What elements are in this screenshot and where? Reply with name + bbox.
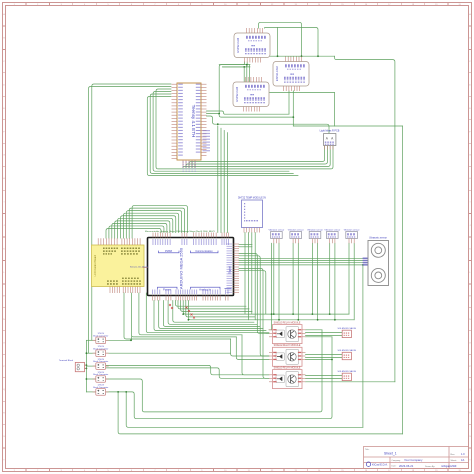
- wire vibration sensor 3 drop R: [317, 243, 319, 320]
- wire LCD bottom fan 4: [146, 293, 269, 333]
- wire LCD-mega bus 7: [123, 213, 178, 238]
- wire buck4 out: [106, 330, 322, 412]
- ultrasonic sensor module U7: [363, 237, 389, 286]
- wire LCD-mega bus 1: [106, 229, 161, 239]
- junction: [130, 339, 132, 341]
- svg-text:Date:: Date:: [392, 465, 397, 468]
- wire camera B bottom bus: [262, 92, 335, 94]
- wire teensy 5V left loop: [92, 84, 171, 340]
- wire LCD-mega bus 9: [129, 208, 184, 238]
- junction: [334, 319, 336, 321]
- wire LCD bottom fan 3: [139, 293, 242, 335]
- wire camera B pin drop a: [288, 91, 290, 114]
- wire camera-mega drop 2: [220, 128, 222, 232]
- junction: [125, 391, 127, 393]
- svg-text:PWM: PWM: [165, 249, 173, 253]
- wire LCD-mega bus 8: [126, 211, 181, 239]
- vibration sensor module S2: [288, 229, 304, 244]
- wire vibration sensor 1 drop L: [273, 243, 275, 314]
- solenoid valve V1: [337, 327, 356, 338]
- wire DHT drop 2: [247, 233, 249, 320]
- svg-text:Sheet:: Sheet:: [451, 459, 458, 462]
- svg-text:Serial_LCD_Board: Serial_LCD_Board: [130, 266, 149, 269]
- wire mega bottom fan 3: [181, 301, 252, 312]
- svg-text:SINGLE RELAY MODULE: SINGLE RELAY MODULE: [274, 366, 301, 369]
- wire buck 5 left pin: [86, 391, 95, 393]
- wire mega bottom fan 4: [183, 301, 349, 315]
- ESP32-CAM camera module U4: [233, 77, 269, 112]
- junction: [317, 55, 319, 57]
- wire camera B pin drop b: [292, 91, 294, 126]
- junction: [182, 313, 184, 315]
- single relay module K1: [269, 321, 306, 343]
- wire mega-ultrasonic Vcc: [239, 257, 368, 259]
- wire terminal pin a: [85, 364, 87, 366]
- wire buck 3 left pin: [86, 365, 95, 367]
- junction: [277, 55, 279, 57]
- wire mega right drop 1: [239, 254, 269, 334]
- wire relay2-solenoid b: [306, 357, 343, 359]
- wire ESP32 U2 GND loop: [265, 28, 319, 57]
- junction: [86, 368, 88, 370]
- wire DHT drop 3: [251, 233, 253, 315]
- wire camera A-C link 1: [219, 62, 244, 114]
- wire teensy loop q3: [150, 94, 293, 173]
- wire LCD bottom fan 8: [168, 301, 257, 325]
- wire relay2-solenoid a: [306, 354, 343, 356]
- wire teensy-cameraC link 1: [207, 111, 290, 114]
- svg-text:2023-06-21: 2023-06-21: [399, 464, 414, 468]
- wire DHT drop 4: [254, 233, 256, 320]
- junction: [271, 313, 273, 315]
- junction: [218, 113, 220, 115]
- wire ESP32 U2 5V loop: [259, 22, 302, 56]
- solenoid valve V3: [337, 370, 356, 381]
- svg-text:SOLENOID VALVE: SOLENOID VALVE: [337, 327, 356, 330]
- wire vibration sensor 4 drop L: [329, 243, 331, 314]
- wire mega-ultrasonic Echo: [239, 262, 368, 264]
- wire LCD-mega bus 5: [118, 218, 173, 238]
- wire mega right drop 2: [239, 256, 269, 356]
- wire right trunk outer: [402, 126, 404, 434]
- wire relay3-solenoid b: [306, 377, 343, 379]
- ESP32-CAM camera module U3: [273, 57, 309, 92]
- wire mega bottom fan 5: [186, 301, 255, 317]
- wire buck bus: [85, 340, 87, 392]
- wire vibration sensor 2 drop R: [297, 243, 299, 320]
- junction: [331, 359, 333, 361]
- wire relay1 feed a: [266, 332, 269, 334]
- wire LCD bottom fan 7: [163, 301, 260, 327]
- wire mega bottom fan 1: [175, 301, 246, 307]
- wire bottom loop 3: [126, 392, 363, 427]
- wire relay1 feed b: [269, 329, 272, 331]
- wire bottom loop 4: [118, 392, 402, 434]
- wire LCD-mega bus 6: [121, 216, 176, 238]
- single relay module K3: [269, 366, 306, 388]
- svg-text:Power: Power: [163, 288, 171, 292]
- wire terminal out long: [106, 368, 269, 378]
- wire buck 1 left pin: [86, 339, 95, 341]
- wire relay3 out bot: [306, 381, 395, 383]
- wire LCD bottom fan 5: [154, 301, 266, 331]
- wire ESP32 U3 top bus: [252, 55, 335, 57]
- wire mega bottom fan 2: [178, 301, 249, 309]
- wire teensy bottom d4: [191, 162, 193, 168]
- wire teensy bottom d3: [183, 145, 330, 167]
- svg-text:Terminal Block: Terminal Block: [59, 359, 74, 362]
- wire vibration sensor 1 drop R: [278, 243, 280, 320]
- wire buck2 out: [106, 352, 230, 354]
- svg-text:KiCad E.D.A.: KiCad E.D.A.: [372, 463, 388, 467]
- svg-text:ARDUINO MEGA 2560: ARDUINO MEGA 2560: [179, 247, 184, 289]
- wire camera A-C bus a: [219, 64, 250, 66]
- wire camera A-C link 2: [223, 62, 248, 67]
- vibration sensor module S4: [324, 229, 340, 244]
- svg-text:Microcontroller_Arduino_Mega_2: Microcontroller_Arduino_Mega_2560 Arduin…: [145, 230, 215, 233]
- wire teensy LDR link: [207, 116, 330, 134]
- svg-text:SOLENOID VALVE: SOLENOID VALVE: [337, 349, 356, 352]
- svg-text:J: J: [470, 225, 471, 227]
- wire camera C top stub a: [243, 67, 245, 82]
- wire mega right drop 4: [239, 271, 266, 314]
- wire LCD bottom fan 9: [173, 301, 254, 323]
- wire DHT drop 1: [244, 233, 246, 315]
- junction: [278, 319, 280, 321]
- wire teensy GND left loop: [89, 87, 172, 354]
- buck converter PS5: [93, 385, 109, 396]
- svg-text:ESP32-CAM: ESP32-CAM: [236, 38, 240, 53]
- wire teensy bottom d2: [186, 145, 327, 167]
- svg-text:Drawn By:: Drawn By:: [425, 465, 435, 468]
- wire LCD-mega bus 10: [132, 206, 187, 239]
- terminal block J1: [59, 359, 87, 372]
- buck converter PS1: [93, 333, 109, 344]
- wire relay2 out bot: [306, 359, 333, 361]
- junction: [86, 352, 88, 354]
- wire mega right drop 3: [239, 269, 269, 379]
- svg-text:J: J: [4, 225, 5, 227]
- vibration sensor module S1: [269, 229, 285, 244]
- buck converter PS2: [93, 346, 109, 357]
- wire ultrasonic gnd drop: [362, 265, 364, 427]
- svg-text:LCD Control Board: LCD Control Board: [94, 255, 97, 277]
- wire camera-mega drop 1: [217, 126, 219, 233]
- wire relay1-solenoid b: [306, 334, 343, 336]
- vibration sensor module S3: [307, 229, 323, 244]
- wire buck1 out: [106, 339, 131, 341]
- buck converter PS3: [93, 359, 109, 370]
- svg-text:Ultrasonic sensor: Ultrasonic sensor: [369, 237, 387, 240]
- wire mega right short b: [239, 246, 252, 248]
- junction: [117, 391, 119, 393]
- ESP32-CAM camera module U2: [234, 28, 270, 63]
- svg-text:mihiganish99: mihiganish99: [441, 464, 457, 468]
- solenoid valve V2: [337, 349, 356, 360]
- wire relay1 out bot: [306, 336, 333, 338]
- wire vibration sensor 5 drop L: [348, 243, 350, 314]
- wire LDR top feed: [293, 125, 402, 127]
- junction: [86, 364, 88, 366]
- wire mega right short a: [239, 244, 252, 246]
- wire LCD bottom fan 6: [159, 301, 263, 329]
- single relay module K2: [269, 344, 306, 366]
- wire LCD-mega bus 4: [115, 221, 170, 238]
- svg-text:Communication: Communication: [195, 250, 213, 253]
- wire vibration sensor 3 drop L: [311, 243, 313, 314]
- vibration sensor module S5: [344, 229, 360, 244]
- wire right trunk upper: [335, 56, 395, 382]
- svg-text:Company:: Company:: [392, 460, 402, 462]
- svg-text:Sheet_1: Sheet_1: [384, 452, 397, 456]
- wire relay1-solenoid a: [306, 331, 343, 333]
- arduino mega 2560 module A2: [130, 230, 239, 319]
- wire camera-mega drop 4: [226, 133, 228, 233]
- junction: [312, 313, 314, 315]
- wire camera A-C bus b: [223, 66, 251, 68]
- wire relay2 feed a: [231, 339, 269, 356]
- junction: [317, 319, 319, 321]
- wire camera C top stub c: [249, 65, 251, 82]
- LCD control board module A1 (yellow): [92, 238, 145, 293]
- wire buck3 out: [106, 365, 269, 374]
- junction: [246, 64, 248, 66]
- wire buck5 out: [106, 337, 332, 419]
- svg-text:Title:: Title:: [365, 448, 370, 451]
- wire relay1 out top: [306, 329, 323, 331]
- wire buck 2 left pin: [86, 352, 95, 354]
- wire mega bottom fan 6: [188, 301, 354, 320]
- wire LCD bottom fan 1: [124, 293, 231, 339]
- wire LCD bottom fan 2: [131, 293, 236, 337]
- wire teensy bottom d5: [194, 164, 196, 168]
- teensy 4.1 ETH module U1: [172, 83, 211, 172]
- wire teensy-cameraC link 2: [207, 114, 294, 118]
- wire relay3 feed a: [242, 335, 269, 375]
- wire LCD-mega bus 2: [109, 226, 164, 238]
- wire camera B bottom riser: [334, 93, 336, 126]
- junction: [301, 55, 303, 57]
- junction: [292, 313, 294, 315]
- svg-text:Rev:: Rev:: [451, 454, 456, 456]
- junction: [297, 319, 299, 321]
- wire buck 4 left pin: [86, 378, 95, 380]
- LDR light sensor PCB U5: [320, 130, 340, 150]
- title block: [364, 447, 469, 469]
- wire teensy loop q2: [153, 92, 289, 172]
- svg-text:Teensy 4.1 ETH: Teensy 4.1 ETH: [191, 105, 196, 138]
- wire relay3-solenoid a: [306, 374, 343, 376]
- junction: [273, 313, 275, 315]
- svg-text:1/1: 1/1: [461, 458, 465, 462]
- wire buck1 link: [130, 337, 132, 340]
- buck converter PS4: [93, 372, 109, 383]
- svg-text:SOLENOID VALVE: SOLENOID VALVE: [337, 370, 356, 373]
- wire vibration sensor 5 drop R: [353, 243, 355, 320]
- wire vibration sensor 4 drop R: [334, 243, 336, 320]
- wire terminal pin b: [85, 367, 87, 369]
- wire sensor1 relay feed: [271, 243, 273, 330]
- wire ESP32 U3 top stub riser: [277, 28, 279, 57]
- junction: [243, 66, 245, 68]
- junction: [329, 313, 331, 315]
- wire LCD-mega bus 3: [112, 223, 167, 238]
- svg-text:SINGLE RELAY MODULE: SINGLE RELAY MODULE: [274, 344, 301, 347]
- svg-text:SINGLE RELAY MODULE: SINGLE RELAY MODULE: [274, 321, 301, 324]
- wire camera C top stub b: [246, 65, 248, 82]
- svg-text:Your Company: Your Company: [404, 458, 423, 462]
- wire camera-mega drop 3: [223, 130, 225, 232]
- junction: [86, 378, 88, 380]
- junction: [292, 116, 294, 118]
- svg-text:ESP32-CAM: ESP32-CAM: [275, 66, 279, 81]
- junction: [362, 264, 364, 266]
- svg-text:1.0: 1.0: [461, 452, 465, 456]
- svg-text:Light Meas R PCB: Light Meas R PCB: [320, 130, 340, 133]
- wire mega-ultrasonic Trig: [239, 260, 368, 262]
- wire teensy loop q4: [147, 97, 298, 176]
- svg-text:DHT22 TEMP MODULE 5V: DHT22 TEMP MODULE 5V: [238, 198, 267, 200]
- wire teensy bottom d1: [189, 145, 325, 167]
- wire mega-ultrasonic Gnd: [239, 264, 368, 266]
- svg-text:ESP32-CAM: ESP32-CAM: [235, 87, 239, 102]
- wire vibration sensor 2 drop L: [292, 243, 294, 314]
- junction: [217, 123, 219, 125]
- wire relay2 feed b: [236, 337, 269, 360]
- DHT22 temperature module U6: [238, 198, 267, 233]
- wire teensy loop q1: [156, 89, 333, 169]
- junction: [188, 319, 190, 321]
